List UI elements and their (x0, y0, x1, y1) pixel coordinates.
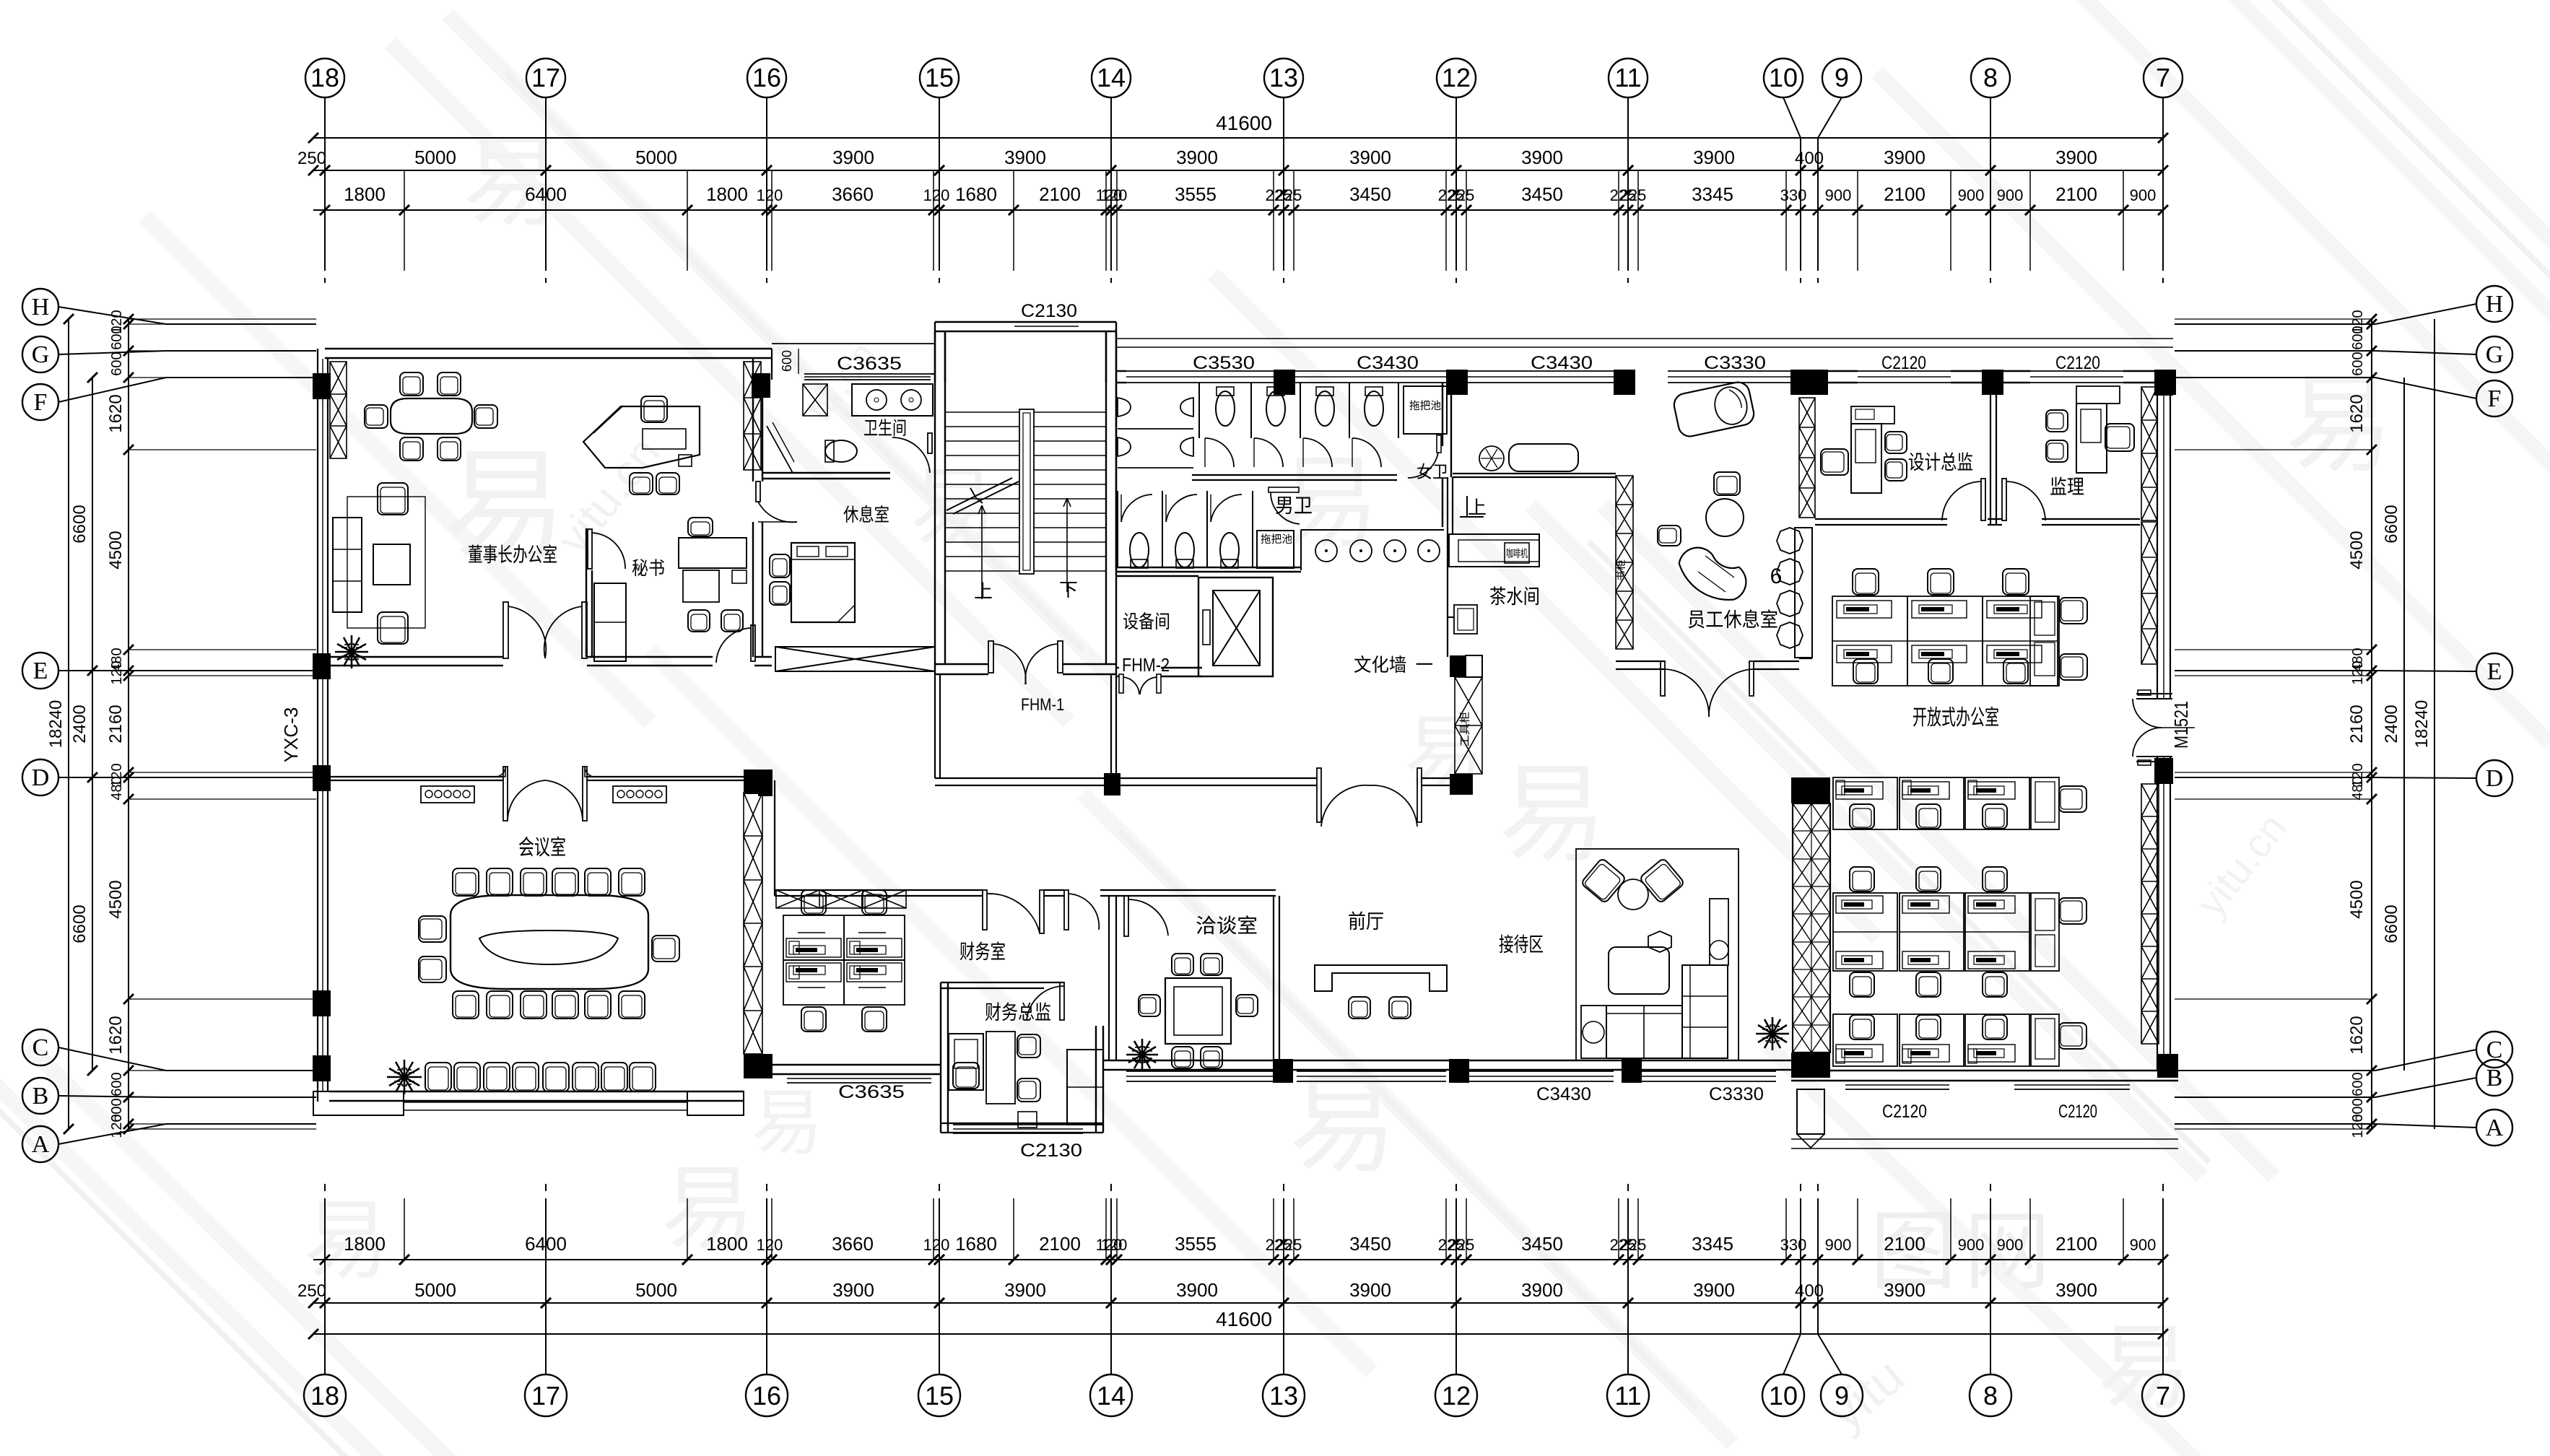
svg-text:C3635: C3635 (838, 1082, 905, 1102)
door FHM-2 (1119, 674, 1123, 693)
svg-text:E: E (33, 658, 48, 684)
conference ceiling units (421, 786, 474, 803)
plant negotiation (1142, 1054, 1158, 1056)
door bathroom (928, 433, 932, 453)
svg-text:11: 11 (1614, 1381, 1641, 1411)
svg-text:C2120: C2120 (2058, 1102, 2097, 1122)
svg-text:A: A (32, 1131, 50, 1158)
door negotiation room (1124, 896, 1128, 936)
label open office (1913, 707, 1998, 727)
svg-text:17: 17 (531, 1381, 560, 1411)
culture wall column + tool cabinet shaft (1450, 655, 1466, 677)
door men WC (1269, 487, 1299, 492)
svg-text:H: H (2486, 291, 2504, 318)
svg-text:6600: 6600 (70, 904, 90, 943)
svg-text:1800: 1800 (706, 183, 748, 205)
svg-text:120: 120 (2350, 1114, 2366, 1138)
svg-text:FHM-2: FHM-2 (1122, 654, 1170, 676)
corridor wall at staff lounge north (1453, 473, 1616, 474)
top facade columns (1274, 370, 1295, 395)
reception counter + stools (1315, 965, 1447, 991)
svg-text:G: G (2486, 341, 2504, 368)
svg-text:1620: 1620 (2347, 1016, 2367, 1054)
svg-text:330: 330 (1780, 1236, 1807, 1254)
plant reception (1772, 1033, 1789, 1035)
stair treads + center rail (945, 411, 1019, 413)
svg-text:6600: 6600 (70, 505, 90, 543)
small door tea room (1454, 605, 1477, 634)
svg-text:600: 600 (2350, 352, 2366, 375)
svg-text:17: 17 (531, 63, 560, 92)
svg-text:C: C (32, 1034, 49, 1061)
design director/supervision office walls (1815, 518, 1947, 520)
svg-text:120: 120 (923, 1236, 950, 1254)
svg-text:480: 480 (2350, 776, 2366, 800)
svg-text:2100: 2100 (2055, 183, 2097, 205)
bottom wall finance + window C3635 (772, 1064, 941, 1065)
svg-text:2100: 2100 (1884, 183, 1925, 205)
label finance office (960, 941, 1005, 960)
left dimension chains (128, 319, 129, 1129)
svg-text:3345: 3345 (1692, 1233, 1733, 1255)
step up mark (1466, 496, 1468, 517)
label men WC (1276, 497, 1312, 514)
svg-text:120: 120 (109, 661, 125, 684)
svg-text:1800: 1800 (344, 1233, 386, 1255)
door finance director (1060, 982, 1064, 1020)
bottom wall conference room + terrace (329, 1091, 744, 1092)
chairman guest chairs (630, 473, 653, 494)
svg-text:D: D (2486, 765, 2504, 792)
svg-text:6400: 6400 (525, 1233, 567, 1255)
stairwell walls (934, 332, 936, 674)
svg-text:3900: 3900 (1349, 147, 1391, 168)
svg-text:225: 225 (1276, 186, 1302, 204)
finance director protrusion walls + window C2130 (940, 982, 941, 1133)
top grid circles 18-7 (305, 58, 344, 97)
svg-text:5000: 5000 (414, 147, 456, 168)
svg-text:900: 900 (2130, 1236, 2157, 1254)
label design director (1909, 453, 1972, 471)
door chairman-secretary (588, 529, 592, 569)
plant chairman office (352, 651, 368, 653)
svg-text:330: 330 (1780, 186, 1807, 204)
svg-text:2400: 2400 (70, 705, 90, 743)
open office bottom-right workstations (1833, 777, 1897, 829)
svg-text:11: 11 (1614, 63, 1641, 92)
svg-text:5000: 5000 (635, 147, 677, 168)
finance director desk + sofa (949, 1034, 983, 1090)
svg-text:FHM-1: FHM-1 (1021, 695, 1064, 715)
svg-text:120: 120 (757, 186, 783, 204)
supervision desk (2076, 404, 2107, 473)
svg-text:120: 120 (757, 1236, 783, 1254)
door FHM-1 (988, 641, 993, 673)
fan + lounge chair (1479, 446, 1504, 471)
staff lounge bar + stools (1795, 528, 1812, 658)
right dimension chains (2371, 319, 2372, 1129)
svg-text:14: 14 (1097, 63, 1126, 92)
label finance director (985, 1002, 1050, 1021)
tea room counter + coffee machine (1449, 534, 1539, 567)
svg-text:225: 225 (1448, 1236, 1475, 1254)
svg-text:3900: 3900 (1176, 1279, 1218, 1301)
svg-text:900: 900 (2130, 186, 2157, 204)
svg-text:250: 250 (297, 1281, 326, 1301)
door secretary room (751, 625, 755, 661)
svg-text:1680: 1680 (955, 183, 997, 205)
door women WC (1437, 435, 1441, 453)
svg-text:600: 600 (109, 352, 125, 375)
svg-text:3900: 3900 (2055, 1279, 2097, 1301)
mop sink room bottom (1257, 531, 1294, 568)
svg-text:2100: 2100 (1039, 183, 1081, 205)
men WC stalls (1117, 491, 1118, 567)
svg-text:3555: 3555 (1175, 1233, 1217, 1255)
stair direction arrows (981, 505, 983, 599)
wardrobe rest room (775, 647, 935, 671)
svg-text:400: 400 (1795, 149, 1824, 168)
svg-text:3900: 3900 (1693, 147, 1735, 168)
svg-text:6600: 6600 (2382, 904, 2401, 943)
mop sink room top (1404, 386, 1447, 434)
svg-text:4500: 4500 (2347, 880, 2367, 918)
right facade wall + mullions (2157, 383, 2158, 1071)
men urinals (1118, 398, 1131, 417)
door staff lounge (double) (1661, 661, 1665, 696)
svg-text:120: 120 (2350, 661, 2366, 684)
chairman meeting table + chairs (391, 398, 472, 434)
svg-text:E: E (2487, 658, 2502, 685)
toilet block walls (1115, 383, 1117, 570)
label conference room (519, 837, 565, 857)
svg-text:C3635: C3635 (837, 354, 902, 374)
open office top-right workstations (1853, 569, 1879, 595)
svg-text:2100: 2100 (1884, 1233, 1925, 1255)
svg-text:900: 900 (1958, 1236, 1985, 1254)
svg-text:1620: 1620 (106, 1016, 126, 1054)
svg-text:16: 16 (752, 63, 781, 92)
doors finance office (983, 890, 987, 930)
svg-text:13: 13 (1269, 63, 1298, 92)
svg-text:600: 600 (109, 1072, 125, 1096)
svg-text:6400: 6400 (525, 183, 567, 205)
svg-text:3900: 3900 (1521, 147, 1563, 168)
bathroom fixtures (852, 384, 933, 416)
label tea room (1490, 586, 1539, 605)
double door front hall (935, 777, 1317, 779)
svg-text:2100: 2100 (2055, 1233, 2097, 1255)
svg-text:7: 7 (2156, 1381, 2170, 1411)
svg-text:4500: 4500 (106, 531, 126, 569)
svg-text:600: 600 (780, 350, 794, 372)
svg-text:1800: 1800 (706, 1233, 748, 1255)
label negotiation room (1196, 915, 1256, 934)
wall chairman-secretary partition (586, 528, 587, 657)
label secretary (632, 559, 664, 576)
svg-text:18: 18 (310, 1381, 339, 1411)
conference east mullion strip (744, 793, 762, 1054)
negotiation table + chairs (1165, 978, 1231, 1044)
svg-text:16: 16 (752, 1381, 781, 1411)
svg-text:1620: 1620 (2347, 394, 2367, 432)
svg-text:C3430: C3430 (1531, 353, 1593, 373)
right grid letter circles H-A (2476, 286, 2512, 322)
svg-text:C2120: C2120 (1881, 353, 1926, 373)
conference wall chairs row (425, 1063, 451, 1091)
svg-text:18240: 18240 (2412, 700, 2432, 749)
svg-text:B: B (32, 1083, 49, 1110)
svg-text:225: 225 (1276, 1236, 1302, 1254)
svg-text:3900: 3900 (1004, 147, 1046, 168)
label front hall (1349, 911, 1383, 930)
svg-text:14: 14 (1097, 1381, 1126, 1411)
left grid letter circles H-A (22, 289, 58, 325)
svg-text:225: 225 (1620, 186, 1647, 204)
svg-text:41600: 41600 (1216, 112, 1272, 134)
svg-text:2160: 2160 (106, 705, 126, 743)
svg-text:G: G (32, 341, 50, 368)
svg-text:3450: 3450 (1521, 1233, 1563, 1255)
wall E-line chairman suite (328, 656, 503, 658)
svg-text:10: 10 (1769, 1381, 1798, 1411)
svg-text:10: 10 (1769, 63, 1798, 92)
stair tower top wall + window C2130 (935, 321, 1116, 323)
reception lounge sofa set (1576, 849, 1739, 1060)
svg-text:12: 12 (1442, 1381, 1471, 1411)
door rest room west (756, 481, 760, 502)
svg-text:2400: 2400 (2382, 705, 2401, 743)
equipment room walls (1116, 575, 1198, 577)
svg-text:5000: 5000 (414, 1279, 456, 1301)
elevator shaft (1198, 577, 1273, 676)
svg-text:12: 12 (1442, 63, 1471, 92)
svg-text:D: D (32, 764, 50, 791)
svg-text:2100: 2100 (1039, 1233, 1081, 1255)
svg-text:3900: 3900 (2055, 147, 2097, 168)
svg-text:120: 120 (923, 186, 950, 204)
label rest room (843, 505, 888, 523)
svg-text:F: F (34, 389, 48, 416)
svg-text:600: 600 (2350, 1072, 2366, 1096)
svg-text:C3430: C3430 (1357, 353, 1419, 373)
label women WC (1417, 463, 1448, 479)
svg-text:600: 600 (109, 326, 125, 349)
svg-text:3900: 3900 (1004, 1279, 1046, 1301)
svg-text:480: 480 (109, 776, 125, 800)
svg-text:9: 9 (1835, 63, 1849, 92)
svg-text:9: 9 (1835, 1381, 1849, 1411)
svg-text:120: 120 (1101, 186, 1128, 204)
bottom wall middle with windows (1103, 1060, 1791, 1061)
svg-text:15: 15 (925, 63, 954, 92)
finance workstations (783, 960, 844, 1005)
svg-text:3450: 3450 (1349, 183, 1391, 205)
wall bathroom-restroom (762, 472, 890, 474)
svg-text:1680: 1680 (955, 1233, 997, 1255)
svg-text:225: 225 (1448, 186, 1475, 204)
top facade F-line wall with windows (1126, 370, 1274, 372)
svg-text:C3530: C3530 (1193, 353, 1255, 373)
svg-text:6: 6 (1770, 564, 1783, 588)
label equipment room (1123, 612, 1169, 629)
svg-text:C2130: C2130 (1021, 301, 1077, 321)
label staff lounge (1689, 609, 1777, 628)
design director desk (1851, 424, 1881, 493)
svg-text:C2130: C2130 (1020, 1141, 1082, 1161)
svg-text:B: B (2486, 1065, 2503, 1091)
negotiation room walls (1108, 896, 1110, 1060)
svg-text:C2120: C2120 (2055, 353, 2100, 373)
svg-text:120: 120 (109, 1114, 125, 1138)
double door chairman office (503, 602, 508, 658)
svg-text:15: 15 (925, 1381, 954, 1411)
svg-text:6600: 6600 (2382, 505, 2401, 543)
conference chairs (453, 868, 479, 896)
bottom grid circles 18-7 (304, 1374, 346, 1416)
svg-text:3900: 3900 (1176, 147, 1218, 168)
label culture wall (1354, 655, 1432, 673)
svg-text:7: 7 (2156, 63, 2170, 92)
svg-text:C3430: C3430 (1536, 1084, 1591, 1104)
chairman sofa set (330, 362, 347, 458)
svg-text:5000: 5000 (635, 1279, 677, 1301)
svg-text:600: 600 (2350, 326, 2366, 349)
plant conference (404, 1076, 422, 1078)
svg-text:3555: 3555 (1175, 183, 1217, 205)
exterior wall top-left (chairman suite) (325, 348, 772, 349)
svg-text:3660: 3660 (832, 183, 874, 205)
label chairman office (469, 544, 557, 563)
svg-text:3900: 3900 (832, 1279, 874, 1301)
label bathroom (864, 419, 905, 436)
svg-text:250: 250 (297, 149, 326, 168)
svg-text:18: 18 (310, 63, 339, 92)
finance north wall + glazed partition (775, 889, 983, 891)
svg-text:225: 225 (1620, 1236, 1647, 1254)
svg-text:13: 13 (1269, 1381, 1298, 1411)
svg-text:3900: 3900 (1884, 147, 1925, 168)
svg-text:A: A (2486, 1115, 2504, 1141)
door M1521 (2136, 693, 2172, 694)
svg-text:F: F (2488, 385, 2502, 412)
svg-text:900: 900 (1825, 1236, 1852, 1254)
finance director north wall (941, 982, 1064, 983)
wall D-line conference top (329, 776, 503, 777)
svg-text:2160: 2160 (2347, 705, 2367, 743)
left facade wall + columns (317, 349, 318, 1102)
wash basin counter (1301, 529, 1444, 531)
label reception area (1500, 935, 1543, 954)
chairman desk (583, 406, 700, 468)
staff lounge curved sofa + table (1673, 532, 1754, 615)
svg-text:900: 900 (1825, 186, 1852, 204)
svg-text:3345: 3345 (1692, 183, 1733, 205)
wall secretary-restroom + mullion (752, 359, 754, 481)
doors offices (1981, 479, 1985, 520)
svg-text:3660: 3660 (832, 1233, 874, 1255)
secretary desk + sofa (679, 538, 747, 568)
label supervision (2050, 477, 2084, 495)
svg-text:3900: 3900 (1884, 1279, 1925, 1301)
bottom wall right with C2120 windows + terrace (1791, 1070, 2178, 1071)
front hall north walls (934, 674, 936, 778)
svg-text:4500: 4500 (2347, 531, 2367, 569)
svg-text:C3330: C3330 (1709, 1084, 1764, 1104)
staff lounge walls + bookcase (1616, 476, 1633, 649)
svg-text:M1521: M1521 (2170, 701, 2192, 749)
conference table (451, 895, 648, 989)
svg-text:18240: 18240 (46, 700, 66, 749)
rest room bed (791, 543, 855, 622)
double door conference room (495, 767, 505, 777)
svg-text:41600: 41600 (1216, 1308, 1272, 1330)
lattice feature wall (reception/open office) (1791, 777, 1830, 803)
svg-text:3900: 3900 (1521, 1279, 1563, 1301)
svg-text:8: 8 (1983, 63, 1998, 92)
svg-text:3450: 3450 (1521, 183, 1563, 205)
svg-text:3450: 3450 (1349, 1233, 1391, 1255)
svg-text:3900: 3900 (832, 147, 874, 168)
svg-text:H: H (32, 294, 50, 321)
svg-text:1800: 1800 (344, 183, 386, 205)
svg-text:120: 120 (1101, 1236, 1128, 1254)
staff lounge sofa top (1672, 380, 1756, 439)
svg-text:900: 900 (1997, 1236, 2024, 1254)
svg-text:8: 8 (1983, 1381, 1998, 1411)
bottom dimension lines (313, 1259, 2163, 1260)
women WC stalls (1198, 383, 1200, 438)
svg-text:3900: 3900 (1349, 1279, 1391, 1301)
svg-text:1620: 1620 (106, 394, 126, 432)
svg-text:C3330: C3330 (1704, 353, 1766, 373)
svg-text:4500: 4500 (106, 880, 126, 918)
svg-text:900: 900 (1997, 186, 2024, 204)
svg-text:YXC-3: YXC-3 (280, 707, 302, 763)
svg-text:3900: 3900 (1693, 1279, 1735, 1301)
stair break line (947, 478, 1012, 510)
window C3635 top (setback) (772, 343, 935, 344)
top canopy lines (right section) (1116, 338, 2173, 339)
svg-text:900: 900 (1958, 186, 1985, 204)
svg-text:C2120: C2120 (1882, 1102, 1927, 1122)
svg-text:400: 400 (1795, 1281, 1824, 1301)
